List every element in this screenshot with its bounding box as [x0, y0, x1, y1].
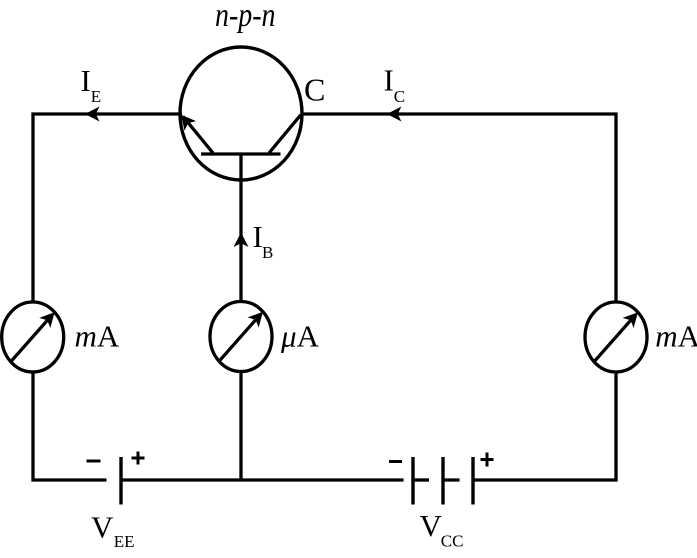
wire: base lead down to microammeter	[239, 154, 242, 302]
wire: bottom-left corner	[33, 372, 107, 481]
battery VCC plate 1	[411, 457, 414, 505]
transistor Q1 circle	[180, 47, 302, 180]
meter M3 needle arrowhead	[623, 307, 644, 328]
svg-text:mA: mA	[75, 318, 120, 353]
svg-text:B: B	[262, 243, 273, 262]
svg-text:μA: μA	[280, 318, 320, 353]
wire: VCC cell stub 2	[443, 478, 460, 481]
wire: top-right loop (collector wire to right rail)	[301, 114, 616, 302]
transistor Q1 collector line	[269, 115, 301, 153]
arrow IC on collector wire	[387, 107, 402, 122]
battery VEE minus sign	[87, 460, 101, 463]
svg-text:C: C	[394, 87, 405, 106]
svg-text:I: I	[81, 63, 91, 98]
svg-text:n-p-n: n-p-n	[215, 0, 276, 34]
svg-text:I: I	[384, 63, 394, 98]
arrow IE on emitter wire	[85, 107, 100, 122]
battery VEE plus sign	[132, 452, 145, 465]
svg-text:mA: mA	[655, 318, 697, 353]
transistor Q1 base bar	[201, 152, 281, 155]
svg-text:EE: EE	[114, 532, 135, 551]
meter M3 needle	[594, 316, 634, 362]
battery VCC plate 3	[471, 457, 474, 505]
meter M1 needle arrowhead	[39, 307, 60, 328]
meter M3 (mA, collector) circle	[585, 302, 647, 372]
wire: bottom rail from VEE to VCC	[121, 478, 404, 481]
meter M1 needle	[11, 316, 51, 362]
battery VEE plate	[119, 457, 122, 505]
meter M2 needle arrowhead	[248, 307, 269, 328]
meter M1 (mA, emitter) circle	[2, 302, 64, 372]
svg-text:E: E	[91, 87, 101, 106]
wire: VCC cell stub 1	[413, 478, 429, 481]
wire: microammeter to bottom rail	[239, 372, 242, 481]
svg-text:C: C	[304, 72, 325, 108]
wire: top-left loop (emitter wire to left rail)	[33, 114, 182, 302]
meter M2 (uA, base) circle	[210, 302, 272, 372]
arrow IB on base wire	[234, 233, 249, 248]
meter M2 needle	[219, 316, 259, 362]
battery VCC plate 2	[441, 457, 444, 505]
svg-text:CC: CC	[441, 531, 464, 550]
battery VCC plus sign	[481, 453, 494, 467]
svg-text:V: V	[420, 508, 443, 543]
wire: bottom-right corner	[473, 372, 616, 481]
transistor Q1 emitter line	[183, 117, 213, 154]
svg-text:V: V	[91, 509, 114, 544]
battery VCC minus sign	[389, 460, 402, 463]
transistor Q1 emitter arrowhead	[175, 110, 196, 131]
